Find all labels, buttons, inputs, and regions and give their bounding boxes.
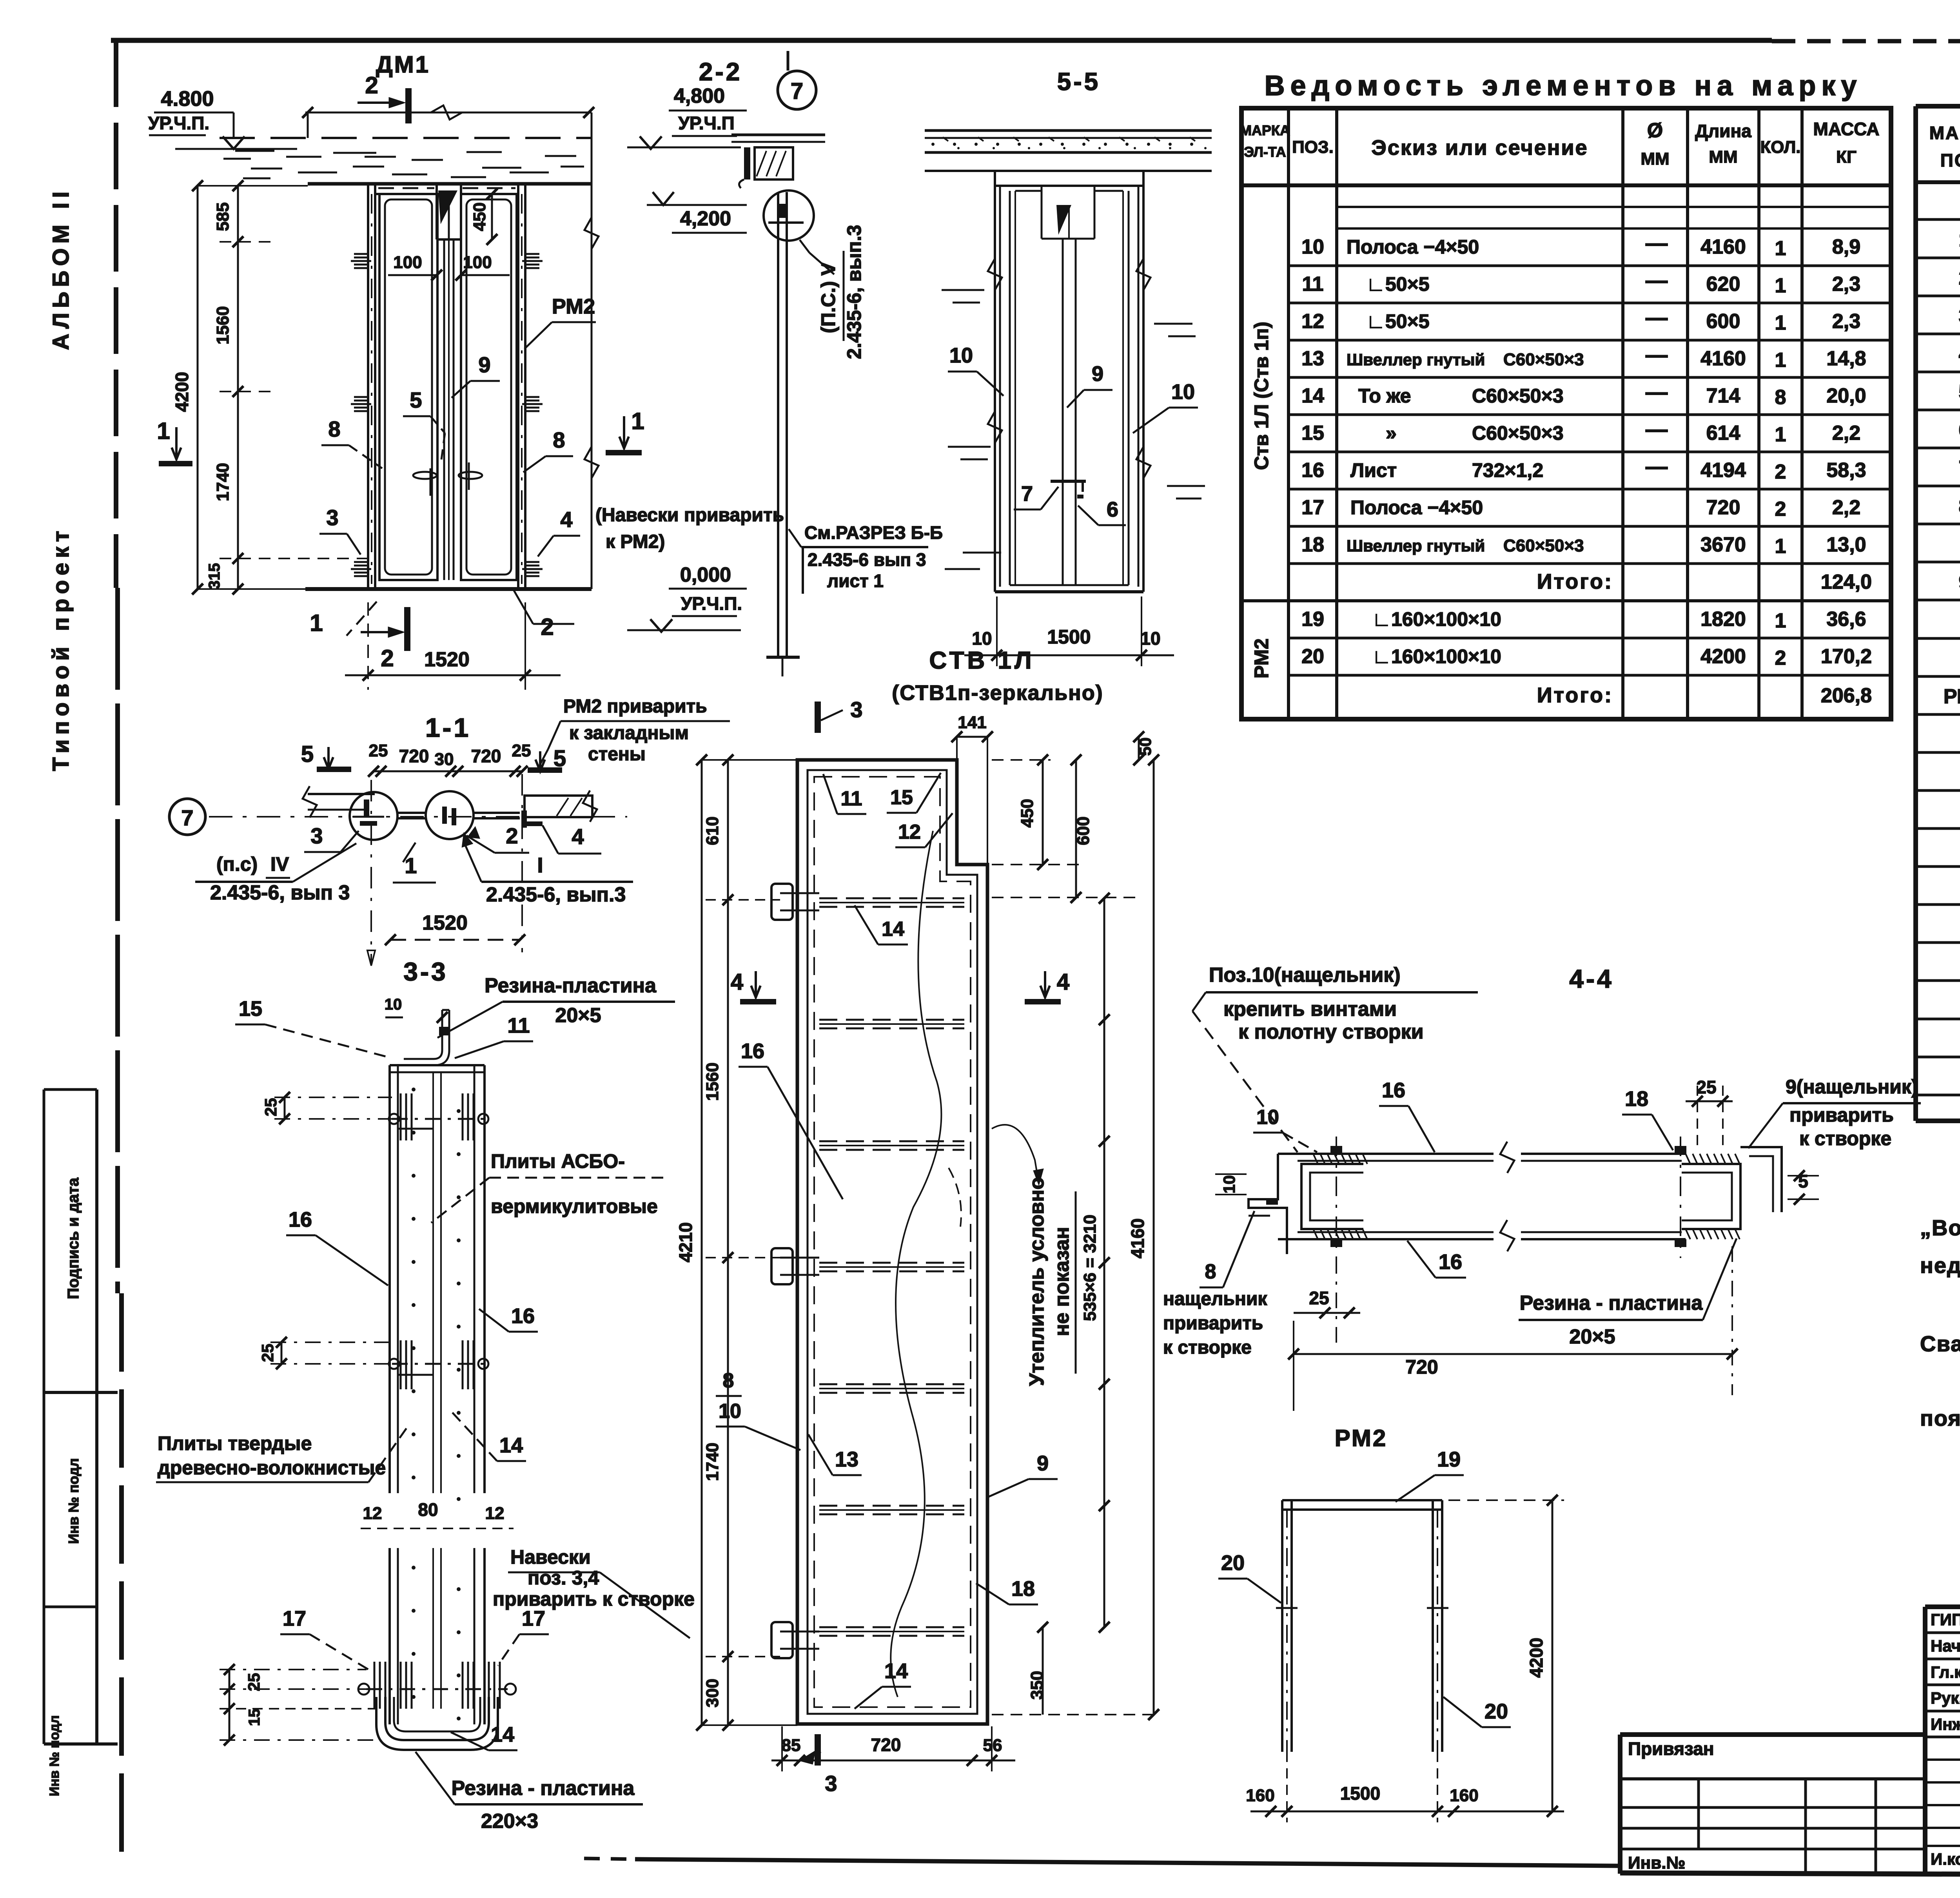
svg-text:Навески: Навески (510, 1546, 591, 1568)
section mark 1 right (606, 408, 644, 455)
svg-text:4210: 4210 (675, 1222, 696, 1262)
svg-text:2-2: 2-2 (699, 58, 742, 86)
door leaves top bar with notch ДМ1 (375, 184, 518, 239)
right U channel with rubber 4-4 (1675, 1137, 1740, 1258)
svg-text:1: 1 (1775, 237, 1786, 260)
svg-text:20,0: 20,0 (1826, 384, 1866, 407)
svg-text:4200: 4200 (1526, 1638, 1546, 1678)
view title 2-2 (699, 58, 742, 86)
panel outline СТВ1Л (797, 760, 987, 1724)
roof slab and lintel 2-2 (731, 135, 825, 188)
svg-text:13,0: 13,0 (1826, 533, 1866, 556)
svg-text:732×1,2: 732×1,2 (1472, 459, 1543, 481)
svg-text:2,3: 2,3 (1832, 310, 1860, 333)
svg-text:3: 3 (310, 823, 323, 848)
svg-text:2.435-6 вып 3: 2.435-6 вып 3 (808, 549, 926, 570)
svg-text:85: 85 (782, 1736, 801, 1755)
svg-text:Эскиз или сечение: Эскиз или сечение (1371, 136, 1588, 160)
view title ДМ1 (376, 51, 430, 78)
bolt block 1 on 3-3 (261, 1092, 488, 1140)
svg-text:714: 714 (1706, 384, 1740, 407)
svg-text:4-4: 4-4 (1569, 964, 1613, 993)
svg-text:1820: 1820 (1700, 608, 1746, 631)
svg-text:(п.с): (п.с) (216, 853, 258, 875)
svg-text:2: 2 (1775, 460, 1786, 483)
svg-text:приварить: приварить (1789, 1104, 1894, 1126)
svg-text:16: 16 (741, 1039, 764, 1063)
svg-text:720: 720 (399, 746, 429, 766)
svg-text:То же: То же (1358, 385, 1411, 407)
labels 15 11 резина-пластина 20x5 on 3-3 (235, 974, 675, 1058)
svg-text:Утеплитель условно: Утеплитель условно (1025, 1177, 1048, 1386)
svg-text:585: 585 (213, 202, 232, 231)
svg-text:20×5: 20×5 (555, 1004, 601, 1027)
svg-text:12: 12 (363, 1504, 382, 1523)
section mark 5 left on 1-1 (301, 741, 351, 772)
svg-text:10: 10 (385, 996, 402, 1013)
view title СТВ 1Л (СТВ1п-зеркально) (892, 647, 1103, 705)
svg-text:РМ2: РМ2 (1250, 638, 1272, 678)
svg-text:∟50×5: ∟50×5 (1366, 273, 1430, 295)
svg-text:2,2: 2,2 (1832, 422, 1860, 444)
svg-text:20×5: 20×5 (1569, 1325, 1615, 1348)
svg-text:17: 17 (1301, 496, 1324, 519)
svg-text:14: 14 (491, 1723, 514, 1746)
svg-text:1-1: 1-1 (425, 713, 471, 743)
svg-text:1: 1 (631, 408, 644, 434)
svg-text:4: 4 (560, 507, 572, 532)
svg-text:Ø: Ø (1647, 119, 1663, 142)
detail bubble 7 top of 2-2 (778, 51, 816, 109)
elevation mark 4,800 on 2-2 (627, 85, 747, 149)
svg-text:АЛЬБОМ II: АЛЬБОМ II (48, 187, 74, 350)
svg-text:Привязан: Привязан (1628, 1738, 1714, 1759)
label резина-пластина 20x5 on 4-4 (1519, 1238, 1737, 1348)
svg-text:100: 100 (393, 253, 422, 272)
svg-text:5: 5 (410, 388, 422, 412)
svg-text:5: 5 (1959, 381, 1960, 403)
svg-text:25: 25 (512, 741, 531, 760)
central post and flag 5-5 (1056, 205, 1076, 585)
svg-text:УР.Ч.П.: УР.Ч.П. (681, 593, 742, 614)
svg-text:8: 8 (328, 417, 340, 441)
freehand leader curves inside СТВ1Л (891, 831, 961, 1697)
svg-text:8,9: 8,9 (1832, 236, 1860, 258)
door opening outline 5-5 (995, 171, 1143, 592)
svg-text:10: 10 (1301, 236, 1324, 258)
svg-text:620: 620 (1706, 273, 1740, 295)
svg-text:1520: 1520 (424, 648, 470, 671)
right post detail 1-1 (521, 810, 543, 828)
svg-text:к полотну створки: к полотну створки (1238, 1021, 1424, 1043)
svg-text:10: 10 (1140, 628, 1160, 649)
svg-text:7: 7 (1959, 457, 1960, 480)
section mark 2 bottom (310, 590, 574, 671)
door hinges ДМ1 (6x) (351, 254, 543, 576)
svg-text:„Ворота противопожарные и во: „Ворота противопожарные и ворота противо… (1920, 1215, 1960, 1240)
bottom dimension 10 1500 10 on 5-5 (964, 596, 1174, 666)
svg-text:614: 614 (1706, 422, 1740, 444)
svg-text:МАРКА: МАРКА (1929, 123, 1960, 143)
svg-text:9: 9 (1959, 571, 1960, 594)
view title РМ2 (1335, 1425, 1388, 1451)
svg-text:Инв № подл: Инв № подл (65, 1458, 82, 1544)
svg-text:лист 1: лист 1 (827, 571, 884, 591)
svg-text:5: 5 (301, 741, 314, 767)
svg-text:9: 9 (1037, 1452, 1049, 1475)
margin text Типовой проект (rotated) (48, 526, 74, 771)
svg-text:25: 25 (369, 741, 388, 760)
svg-text:3: 3 (1959, 305, 1960, 327)
svg-text:720: 720 (1405, 1356, 1438, 1378)
left dimension chain 4200/585/1560/1740/315 (172, 180, 368, 595)
svg-text:»: » (1386, 422, 1397, 444)
svg-text:10: 10 (1171, 380, 1195, 404)
svg-text:14: 14 (1301, 384, 1324, 407)
svg-text:10: 10 (719, 1400, 741, 1423)
svg-text:Гл.констр: Гл.констр (1931, 1663, 1960, 1681)
svg-text:4: 4 (731, 969, 743, 995)
svg-text:(СТВ1п-зеркально): (СТВ1п-зеркально) (892, 681, 1103, 705)
table Спецификация data rows (1944, 189, 1960, 1088)
svg-text:ДМ1: ДМ1 (376, 51, 430, 78)
margin text АЛЬБОМ II (rotated) (48, 187, 74, 350)
svg-text:КГ: КГ (1836, 147, 1857, 167)
svg-text:1740: 1740 (703, 1443, 722, 1481)
axis dash-dot line 1-1 (209, 816, 627, 818)
svg-text:1: 1 (157, 418, 170, 444)
svg-text:30: 30 (435, 750, 454, 769)
svg-text:(Навески приварить: (Навески приварить (595, 505, 784, 526)
svg-text:4,800: 4,800 (674, 85, 725, 107)
meeting stiles ДМ1 (444, 239, 454, 580)
svg-text:18: 18 (1625, 1087, 1648, 1111)
left U channel with rubber 4-4 (1301, 1137, 1367, 1258)
svg-text:МАРКА: МАРКА (1240, 122, 1290, 138)
svg-text:1: 1 (1775, 274, 1786, 297)
svg-text:600: 600 (1074, 816, 1093, 845)
labels плиты асбовермикулитовые 16 on 3-3 (286, 1150, 666, 1285)
svg-text:80: 80 (418, 1499, 438, 1520)
svg-text:—: — (1646, 268, 1668, 292)
svg-text:10: 10 (1220, 1175, 1238, 1194)
svg-text:СТВ 1Л: СТВ 1Л (929, 647, 1034, 674)
svg-text:300: 300 (703, 1679, 722, 1707)
svg-text:12: 12 (898, 821, 921, 843)
detail circle left post 1-1 (350, 792, 397, 840)
svg-text:6: 6 (1959, 419, 1960, 442)
svg-text:1: 1 (1775, 349, 1786, 372)
svg-text:Ведомость элементов на марк: Ведомость элементов на марку (1265, 70, 1862, 102)
svg-text:вермикулитовые: вермикулитовые (491, 1195, 658, 1217)
svg-text:600: 600 (1706, 310, 1740, 333)
section mark 1 left (157, 418, 192, 466)
svg-text:ПОЗ.: ПОЗ. (1940, 150, 1960, 170)
svg-text:12: 12 (1301, 310, 1324, 333)
svg-text:РМ2: РМ2 (552, 295, 595, 318)
table Спецификация grid (1916, 106, 1960, 1121)
svg-text:Рук.гр.: Рук.гр. (1931, 1689, 1960, 1707)
door leaf in section 2-2 (766, 192, 800, 676)
svg-text:Подпись и дата: Подпись и дата (65, 1177, 82, 1299)
table title Ведомость элементов на марку (1265, 70, 1862, 102)
svg-text:2: 2 (1775, 647, 1786, 669)
svg-text:610: 610 (703, 816, 722, 845)
svg-text:РМ2 приварить: РМ2 приварить (563, 696, 707, 717)
shpingalet black flag at notch (438, 190, 457, 239)
section mark 2 top (358, 72, 412, 123)
svg-text:∟50×5: ∟50×5 (1366, 310, 1430, 332)
dimension 4200 right of РМ2 (1448, 1495, 1564, 1817)
svg-text:8: 8 (1205, 1260, 1216, 1283)
svg-text:ГИП: ГИП (1931, 1610, 1960, 1629)
svg-text:450: 450 (470, 202, 489, 231)
bottom U channel block 3-3 (220, 1662, 516, 1750)
svg-text:2.435-6, вып 3: 2.435-6, вып 3 (210, 881, 350, 904)
leaf cross-section strip upper part 3-3 (390, 1065, 485, 1501)
svg-text:КОЛ.: КОЛ. (1760, 138, 1800, 157)
svg-text:4160: 4160 (1700, 347, 1746, 370)
svg-text:100: 100 (463, 253, 492, 272)
wall in plan right 1-1 (524, 790, 597, 822)
svg-text:1740: 1740 (213, 463, 232, 501)
svg-text:720: 720 (471, 746, 501, 766)
svg-text:3: 3 (850, 697, 862, 722)
svg-text:25: 25 (258, 1344, 277, 1362)
svg-text:Сварку производить электрод: Сварку производить электродами Э-42 по Г… (1920, 1331, 1960, 1356)
view title 4-4 (1569, 964, 1613, 993)
svg-text:5-5: 5-5 (1057, 67, 1101, 96)
svg-text:450: 450 (1018, 799, 1037, 827)
svg-text:160: 160 (1246, 1786, 1274, 1805)
svg-text:10: 10 (1256, 1106, 1279, 1129)
svg-text:2,2: 2,2 (1832, 496, 1860, 519)
svg-text:приварить: приварить (1163, 1313, 1263, 1334)
labels плиты твердые древесно-волокнистые 14 16 on 3-3 (156, 1304, 538, 1482)
door frame РМ2 verticals ДМ1 (368, 184, 525, 589)
svg-text:9: 9 (478, 352, 490, 377)
rotated note Утеплитель условно не показан (992, 1125, 1076, 1386)
svg-text:РМ2: РМ2 (1944, 685, 1960, 708)
left door leaf ДМ1 (379, 194, 437, 580)
bottom dimension 1520 ДМ1 (345, 602, 561, 690)
svg-text:1: 1 (1775, 312, 1786, 334)
svg-text:12: 12 (485, 1504, 505, 1523)
svg-text:1: 1 (310, 610, 323, 636)
dimension 25 top right 4-4 (1686, 1077, 1733, 1148)
detail circle middle post 1-1 (426, 791, 474, 839)
view title 1-1 (425, 713, 471, 743)
РМ2 frame (П-shape) (1276, 1500, 1448, 1752)
svg-text:И.контр.: И.контр. (1931, 1850, 1960, 1868)
svg-text:20: 20 (1221, 1551, 1245, 1575)
svg-text:Полоса −4×50: Полоса −4×50 (1350, 497, 1483, 518)
svg-text:25: 25 (1309, 1288, 1329, 1308)
svg-text:15: 15 (1301, 422, 1324, 444)
svg-text:2: 2 (541, 614, 554, 640)
table Ведомость rotated row-group labels (1250, 322, 1272, 678)
svg-text:14: 14 (499, 1434, 523, 1457)
svg-text:∟160×100×10: ∟160×100×10 (1372, 645, 1501, 667)
top dimension line of ДМ1 (302, 105, 594, 138)
svg-text:18: 18 (1011, 1577, 1035, 1601)
svg-text:Швеллер гнутый: Швеллер гнутый (1347, 350, 1485, 369)
svg-text:14: 14 (884, 1659, 908, 1683)
dimension 450 at notch (461, 189, 498, 245)
svg-text:58,3: 58,3 (1826, 459, 1866, 482)
bottom dimension 160 1500 160 РМ2 (1246, 1752, 1564, 1822)
svg-text:10: 10 (972, 628, 992, 649)
detail bubble 7 on 1-1 (169, 799, 205, 835)
svg-text:Резина - пластина: Резина - пластина (452, 1777, 635, 1800)
svg-text:3670: 3670 (1700, 533, 1746, 556)
margin stamp box Подпись и дата / Инв № подл (44, 1089, 118, 1796)
svg-text:17: 17 (522, 1607, 545, 1630)
svg-text:4: 4 (1057, 969, 1069, 995)
title block left extension Привязан (1620, 1735, 1925, 1874)
svg-text:∟160×100×10: ∟160×100×10 (1372, 608, 1501, 630)
panel ribs СТВ1Л (819, 898, 964, 1636)
svg-text:Ств 1Л (Ств 1п): Ств 1Л (Ств 1п) (1250, 322, 1272, 470)
wall break dashes around 5-5 (942, 259, 1205, 569)
svg-text:25: 25 (261, 1098, 280, 1117)
svg-text:УР.Ч.П: УР.Ч.П (678, 113, 734, 133)
svg-text:20: 20 (1301, 645, 1324, 668)
table Ведомость grid (1241, 108, 1891, 719)
svg-text:ЭЛ-ТА: ЭЛ-ТА (1244, 144, 1286, 160)
svg-text:ММ: ММ (1709, 147, 1737, 167)
labels 17 17 14 резина-пластина 220x3 on 3-3 (280, 1607, 643, 1833)
svg-text:Лист: Лист (1350, 459, 1397, 481)
svg-text:2: 2 (1775, 498, 1786, 520)
svg-text:8: 8 (1959, 495, 1960, 518)
door leaves in plan 1-1 (397, 813, 520, 818)
dimension 12 80 12 gap on 3-3 (361, 1499, 514, 1528)
svg-text:15: 15 (246, 1709, 263, 1726)
svg-text:3: 3 (326, 505, 338, 530)
svg-text:С60×50×3: С60×50×3 (1472, 422, 1564, 444)
svg-text:0,000: 0,000 (680, 564, 731, 586)
dimensions 100 100 at stiles (388, 253, 510, 281)
svg-text:16: 16 (1382, 1079, 1405, 1102)
roof slab 5-5 (925, 131, 1212, 171)
svg-text:Швеллер гнутый: Швеллер гнутый (1347, 537, 1485, 555)
view title 5-5 (1057, 67, 1101, 96)
section mark 4 marks on СТВ1Л (731, 969, 1069, 1004)
right door leaf ДМ1 (461, 194, 517, 580)
svg-text:Инв.№: Инв.№ (1628, 1853, 1686, 1873)
svg-text:1: 1 (1775, 609, 1786, 632)
section mark 5 right on 1-1 (528, 746, 566, 773)
sheet frame bottom border (584, 1858, 1960, 1877)
svg-text:Типовой проект: Типовой проект (48, 526, 74, 771)
svg-text:9(нащельник): 9(нащельник) (1786, 1076, 1918, 1098)
door leaf panels 5-5 (1010, 186, 1129, 585)
note Поз.10 нащельник крепить винтами к полотну створки (1192, 964, 1478, 1152)
svg-text:Длина: Длина (1695, 121, 1751, 141)
svg-text:ПОЗ.: ПОЗ. (1292, 138, 1334, 157)
svg-text:4: 4 (572, 824, 584, 849)
svg-text:—: — (1646, 305, 1668, 330)
svg-text:2.435-6, вып.3: 2.435-6, вып.3 (843, 225, 865, 359)
svg-text:13: 13 (835, 1448, 858, 1471)
svg-text:—: — (1646, 230, 1668, 255)
title block signature table (1925, 1607, 1960, 1873)
leaf horizontal section body 4-4 (1278, 1142, 1686, 1251)
svg-text:15: 15 (239, 997, 262, 1021)
svg-text:стены: стены (588, 744, 646, 765)
label 9 нащельник приварить к створке on 4-4 (1748, 1076, 1921, 1149)
svg-text:25: 25 (1696, 1077, 1716, 1097)
svg-text:См.РАЗРЕЗ Б-Б: См.РАЗРЕЗ Б-Б (804, 522, 943, 543)
svg-text:1520: 1520 (422, 912, 468, 934)
svg-text:10: 10 (949, 344, 973, 367)
svg-text:С60×50×3: С60×50×3 (1472, 385, 1564, 407)
svg-text:Итого:: Итого: (1537, 683, 1613, 707)
svg-text:С60×50×3: С60×50×3 (1503, 350, 1584, 369)
leader labels 9 5 8 8 3 4 РМ2 on ДМ1 (319, 295, 784, 557)
svg-text:2.435-6, вып.3: 2.435-6, вып.3 (486, 883, 626, 906)
svg-text:206,8: 206,8 (1821, 684, 1872, 707)
svg-text:16: 16 (1301, 459, 1324, 482)
right extension line with breaks ДМ1 (584, 112, 599, 589)
vertical section trace and dimension 1520 on 1-1 (367, 774, 525, 966)
svg-text:535×6 = 3210: 535×6 = 3210 (1080, 1215, 1100, 1321)
svg-text:Итого:: Итого: (1537, 570, 1613, 593)
svg-text:19: 19 (1437, 1448, 1461, 1471)
svg-text:—: — (1646, 379, 1668, 404)
svg-text:к створке: к створке (1163, 1337, 1252, 1358)
svg-text:2: 2 (381, 645, 394, 671)
svg-text:4: 4 (1959, 343, 1960, 365)
labels 19 20 20 on РМ2 (1218, 1448, 1511, 1727)
svg-text:Плиты АСБО-: Плиты АСБО- (491, 1150, 625, 1172)
notes paragraph (1920, 1179, 1960, 1430)
svg-text:Резина - пластина: Резина - пластина (1520, 1292, 1703, 1314)
left dimensions 4210 610 1560 1740 300 on СТВ1Л (675, 754, 797, 1731)
svg-text:17: 17 (283, 1607, 306, 1630)
svg-text:РМ2: РМ2 (1335, 1425, 1388, 1451)
svg-text:нащельник: нащельник (1163, 1289, 1267, 1309)
нащельник angle 9 on 4-4 (1740, 1147, 1782, 1212)
svg-text:древесно-волокнистые: древесно-волокнистые (158, 1457, 386, 1479)
svg-text:4200: 4200 (172, 372, 192, 412)
svg-text:(П.С.) V: (П.С.) V (817, 262, 839, 333)
svg-text:7: 7 (791, 78, 803, 104)
svg-text:2: 2 (1959, 266, 1960, 289)
table Спецификация header text (1929, 123, 1960, 170)
elevation mark 4.800 УР.Ч.П. top left (148, 87, 297, 149)
svg-text:—: — (1646, 417, 1668, 441)
svg-text:220×3: 220×3 (481, 1810, 538, 1833)
svg-text:1500: 1500 (1047, 626, 1091, 648)
svg-text:Нач.отд: Нач.отд (1931, 1637, 1960, 1655)
svg-text:ММ: ММ (1641, 149, 1669, 169)
svg-text:2: 2 (506, 823, 518, 848)
svg-text:1: 1 (1775, 535, 1786, 558)
svg-text:4160: 4160 (1700, 236, 1746, 258)
section mark 3 top of СТВ1Л (815, 697, 863, 733)
table Ведомость header text (1240, 119, 1879, 169)
svg-text:1: 1 (1775, 423, 1786, 446)
svg-text:1500: 1500 (1340, 1783, 1380, 1804)
svg-text:С60×50×3: С60×50×3 (1503, 536, 1584, 555)
svg-text:14,8: 14,8 (1826, 347, 1866, 370)
svg-text:—: — (1646, 454, 1668, 479)
svg-text:Плиты твердые: Плиты твердые (158, 1432, 312, 1454)
svg-text:14: 14 (882, 918, 904, 941)
svg-text:1560: 1560 (703, 1062, 722, 1101)
